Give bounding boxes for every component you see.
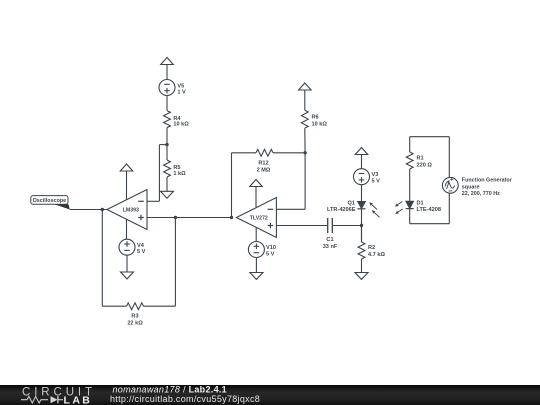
svg-text:LTE-4208: LTE-4208 — [417, 207, 441, 213]
svg-text:R6: R6 — [312, 115, 319, 121]
svg-text:4.7 kΩ: 4.7 kΩ — [368, 252, 385, 258]
svg-text:V4: V4 — [137, 243, 145, 249]
svg-text:R1: R1 — [417, 156, 424, 162]
svg-text:C1: C1 — [326, 237, 333, 243]
svg-text:LM393: LM393 — [123, 207, 139, 213]
svg-text:1 kΩ: 1 kΩ — [173, 171, 186, 177]
svg-text:LTR-4206E: LTR-4206E — [327, 207, 356, 213]
svg-text:TLV272: TLV272 — [250, 215, 268, 221]
svg-text:D1: D1 — [417, 200, 424, 206]
svg-text:square: square — [462, 184, 480, 190]
svg-text:Function Generator: Function Generator — [462, 178, 513, 184]
svg-text:V3: V3 — [372, 172, 379, 178]
svg-text:R3: R3 — [131, 314, 138, 320]
svg-text:5 V: 5 V — [137, 249, 146, 255]
svg-text:LAB: LAB — [64, 394, 93, 405]
svg-text:2 MΩ: 2 MΩ — [257, 168, 271, 174]
svg-text:Q1: Q1 — [348, 200, 355, 206]
svg-text:5 V: 5 V — [266, 252, 275, 258]
svg-text:nomanawan178 / Lab2.4.1: nomanawan178 / Lab2.4.1 — [113, 385, 227, 395]
svg-text:R2: R2 — [368, 245, 375, 251]
svg-text:1 V: 1 V — [177, 90, 186, 96]
svg-text:Oscilloscope: Oscilloscope — [33, 198, 67, 204]
svg-text:http://circuitlab.com/cvu55y78: http://circuitlab.com/cvu55y78jqxc8 — [110, 394, 260, 404]
svg-text:V5: V5 — [177, 83, 184, 89]
svg-text:5 V: 5 V — [372, 179, 381, 185]
svg-text:V10: V10 — [266, 245, 276, 251]
svg-text:10 kΩ: 10 kΩ — [312, 122, 328, 128]
svg-text:22, 200, 770 Hz: 22, 200, 770 Hz — [462, 191, 500, 197]
svg-text:22 kΩ: 22 kΩ — [127, 320, 143, 326]
svg-text:33 nF: 33 nF — [323, 244, 338, 250]
svg-text:10 kΩ: 10 kΩ — [173, 122, 189, 128]
svg-text:R12: R12 — [258, 161, 268, 167]
svg-text:220 Ω: 220 Ω — [417, 163, 433, 169]
